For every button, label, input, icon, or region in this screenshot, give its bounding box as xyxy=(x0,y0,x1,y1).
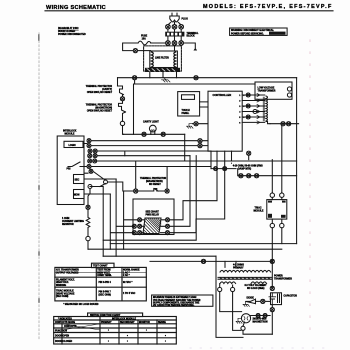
svg-text:FILAMENT VOLT.: FILAMENT VOLT. xyxy=(56,278,75,281)
magnetron cathode terminal xyxy=(241,326,245,330)
connector arrows xyxy=(257,94,260,124)
cavity light lamp xyxy=(149,125,156,134)
label FUSE 15A xyxy=(141,36,148,41)
relay left feed wires xyxy=(110,179,137,256)
relay bottom bus xyxy=(103,156,196,241)
hv loop left vertical xyxy=(216,256,243,337)
svg-text:MON: MON xyxy=(74,195,80,197)
label THERMAL PROTECTOR magnetron-circuit xyxy=(140,177,167,186)
svg-text:TERMINAL: TERMINAL xyxy=(187,32,199,35)
svg-text:WIRING SCHEMATIC: WIRING SCHEMATIC xyxy=(46,5,106,11)
controller pin circle B xyxy=(198,144,202,148)
power transformer T1 primary winding xyxy=(220,270,271,272)
svg-text:PRIMARY: PRIMARY xyxy=(233,267,244,270)
diode output junction xyxy=(261,299,265,303)
junction circle on L1 right xyxy=(194,76,198,80)
label POWER TRANSFORMER xyxy=(274,276,292,281)
svg-text:TRIAC: TRIAC xyxy=(255,207,262,210)
svg-text:MONITOR: MONITOR xyxy=(139,322,150,324)
svg-text:RESISTOR: RESISTOR xyxy=(62,224,74,226)
svg-text:MODULE: MODULE xyxy=(254,211,264,213)
svg-text:CAPACITOR: CAPACITOR xyxy=(284,294,298,297)
scan edge artifacts xyxy=(38,33,40,340)
svg-text:*: * xyxy=(108,342,109,344)
interlock wiring stubs xyxy=(83,144,116,197)
relay right feed wires xyxy=(170,151,225,233)
label INTERLOCK MODULE xyxy=(63,131,77,136)
wire drop from cavity light bus xyxy=(184,134,186,160)
svg-text:NORM. RANGE: NORM. RANGE xyxy=(123,269,140,272)
transformer secondary terminals xyxy=(218,287,222,291)
svg-text:THERMAL PROTECTOR: THERMAL PROTECTOR xyxy=(140,177,167,180)
svg-text:2 AC *: 2 AC * xyxy=(123,274,130,277)
svg-text:POWER BEFORE SERVICING.: POWER BEFORE SERVICING. xyxy=(231,33,264,35)
svg-text:(MAGNETRON): (MAGNETRON) xyxy=(95,107,112,110)
relay terminals right xyxy=(166,218,170,235)
svg-text:POWER DISCONNECTED: POWER DISCONNECTED xyxy=(58,34,86,36)
svg-text:*: * xyxy=(146,331,147,333)
svg-text:NO RESET: NO RESET xyxy=(149,184,161,186)
terminal circle below protectors xyxy=(120,121,124,125)
svg-text:*: * xyxy=(127,336,128,338)
label SEC xyxy=(75,180,80,182)
svg-text:OPEN 260F, NO RESET: OPEN 260F, NO RESET xyxy=(87,92,113,94)
junction terminal at filter input xyxy=(133,49,137,53)
door sense switch diagonal xyxy=(84,173,106,186)
vertical feeders controller area xyxy=(210,151,212,169)
svg-text:SEE CHART: SEE CHART xyxy=(146,211,160,214)
junction circle left of lamp xyxy=(142,132,146,136)
svg-text:CONTACTS MADE: CONTACTS MADE xyxy=(55,321,75,324)
svg-text:INTERLOCK MODULE: INTERLOCK MODULE xyxy=(112,318,136,320)
chassis ground below filter xyxy=(162,77,171,82)
bottom feeder wire with junction xyxy=(150,260,272,262)
junction circle between protectors xyxy=(120,97,124,101)
cavity light bus wire xyxy=(124,133,185,135)
svg-text:FUNCTION: FUNCTION xyxy=(55,331,67,333)
svg-text:*: * xyxy=(127,342,128,344)
svg-text:PANEL: PANEL xyxy=(182,112,190,115)
svg-text:PRIMARY: PRIMARY xyxy=(101,321,112,324)
triac module box xyxy=(267,200,287,220)
svg-text:(CAVITY): (CAVITY) xyxy=(102,88,112,91)
stirrer wire with 3 junction circles xyxy=(238,169,297,176)
wire branch to controller top xyxy=(134,80,256,135)
svg-text:DAMP MTR): DAMP MTR) xyxy=(238,168,251,171)
svg-text:DIODE: DIODE xyxy=(247,298,255,300)
interlock terminal circles column xyxy=(87,139,108,189)
junction circle on feeder xyxy=(201,259,205,263)
svg-text:OUTPUT VOLTAGES: OUTPUT VOLTAGES xyxy=(56,271,79,274)
triac top terminals xyxy=(270,193,274,197)
capacitor bottom junction xyxy=(270,308,274,312)
svg-text:92 VAC *: 92 VAC * xyxy=(123,281,133,284)
wire ground pin to controller xyxy=(193,123,209,125)
label 1 OHM CURRENT LIMITING RESISTOR xyxy=(62,218,84,226)
label MON xyxy=(74,195,80,197)
wire N-side terminal to ground arrow xyxy=(184,43,196,48)
label CONTROLLER xyxy=(213,93,232,97)
wire left drop to thermal protectors xyxy=(117,78,119,86)
svg-text:TEST FROM: TEST FROM xyxy=(97,270,110,272)
filament junctions xyxy=(256,314,267,318)
damp motor wire with junctions xyxy=(211,168,236,170)
svg-text:SECONDARY: SECONDARY xyxy=(120,321,135,324)
ground pin circle xyxy=(194,122,198,126)
triac top stubs xyxy=(272,193,282,200)
label TEST CHART xyxy=(93,265,108,268)
logic board box xyxy=(64,141,83,147)
resistor R1 1 OHM current limiting xyxy=(86,209,90,236)
svg-text:OPEN 300F, NO RESET: OPEN 300F, NO RESET xyxy=(87,111,113,113)
magnetron filament wires xyxy=(251,315,271,317)
svg-text:FUSE: FUSE xyxy=(141,36,148,38)
svg-text:15A: 15A xyxy=(142,37,147,40)
wire into line filter xyxy=(138,50,151,52)
svg-text:NO LOAD (SEE): NO LOAD (SEE) xyxy=(247,287,265,290)
mid bus wire 4 xyxy=(90,187,103,257)
svg-text:MAGNETRON: MAGNETRON xyxy=(253,320,268,323)
svg-text:HIGH VOLT.: HIGH VOLT. xyxy=(56,282,69,284)
svg-text:LOW VOLTAGE: LOW VOLTAGE xyxy=(258,87,275,90)
svg-text:TRANSFORMER: TRANSFORMER xyxy=(274,278,292,281)
svg-text:SENSE: SENSE xyxy=(158,322,166,324)
svg-text:SWITCH FUNCTION CHART: SWITCH FUNCTION CHART xyxy=(90,314,121,317)
footnote measured no load xyxy=(63,303,98,306)
triac feed wires xyxy=(272,126,282,193)
relay coil (hatched) xyxy=(143,218,161,234)
label DIODE xyxy=(247,298,255,300)
label TOUCH PANEL xyxy=(182,110,190,115)
label CAVITY LIGHT xyxy=(143,121,159,124)
svg-text:MODULE: MODULE xyxy=(65,134,75,136)
svg-text:MAXIMUM THERE IS EXTREMELY: MAXIMUM THERE IS EXTREMELY HIGH xyxy=(153,296,197,299)
fuse F1 xyxy=(138,41,151,45)
note box caution xyxy=(152,295,213,306)
junction circles on lvt-rail wire xyxy=(281,122,285,126)
terminal row upper (3 crimp terminals) xyxy=(166,25,184,32)
thermal protector TP3 switch row xyxy=(108,182,134,191)
thermal protector TP2 (magnetron) xyxy=(119,101,126,121)
terminal block TB1 xyxy=(165,32,184,37)
svg-text:*: * xyxy=(165,336,166,338)
touch panel box xyxy=(178,92,200,116)
capacitor top junction xyxy=(270,286,274,290)
svg-text:CURRENT LIMITING: CURRENT LIMITING xyxy=(62,221,84,223)
chart diagonal xyxy=(62,324,100,330)
svg-text:DRIVE VOLTAGE: DRIVE VOLTAGE xyxy=(56,292,75,295)
wire pin A to controller xyxy=(202,141,208,146)
svg-text:* MEASURED NO LOAD ROUND: * MEASURED NO LOAD ROUND xyxy=(63,303,98,306)
controller bottom drop wires xyxy=(225,151,232,168)
controller bottom-right pin circle xyxy=(247,151,251,155)
relay contact linkages xyxy=(142,220,166,233)
label thermal protector magnetron xyxy=(86,104,113,113)
pin junction circles xyxy=(246,93,257,119)
label PLUG xyxy=(182,19,189,21)
title MODELS xyxy=(203,4,333,10)
warning box xyxy=(230,28,288,35)
chassis ground at controller left xyxy=(187,124,194,129)
svg-text:LOGIC: LOGIC xyxy=(69,145,77,147)
wire bus L1 below filter xyxy=(118,77,297,79)
magnetron V1 xyxy=(241,314,250,323)
label LINE FILTER xyxy=(155,58,169,60)
svg-text:THERMAL PROTECTOR: THERMAL PROTECTOR xyxy=(86,85,113,88)
svg-text:* INDICATES: * INDICATES xyxy=(58,317,72,320)
svg-text:TRANSFORMER: TRANSFORMER xyxy=(258,90,276,93)
magnetron ground xyxy=(236,318,242,323)
filter output stubs xyxy=(150,72,177,78)
svg-text:(MAGNETRON): (MAGNETRON) xyxy=(146,180,163,183)
bus wire y160 junction xyxy=(231,162,233,164)
svg-text:PIN 3-PIN 4: PIN 3-PIN 4 xyxy=(99,281,112,284)
test chart cell text xyxy=(56,269,140,299)
wire bus from interlock to controller pin B xyxy=(91,145,198,147)
LVT terminal circles xyxy=(287,87,291,91)
svg-text:4-2 OHMS: 4-2 OHMS xyxy=(233,264,244,267)
label 4-2 OHMS PRIMARY xyxy=(233,264,244,270)
wire 1-ohm branch xyxy=(88,189,90,206)
right rail wire xyxy=(296,78,298,244)
svg-text:DOOR CLOSED: DOOR CLOSED xyxy=(58,31,75,33)
power relay box xyxy=(133,199,174,235)
svg-text:4-10 OHM, 50-60 OHM (FMS: 4-10 OHM, 50-60 OHM (FMS xyxy=(233,165,263,168)
wire lvt winding join xyxy=(268,122,271,124)
capacitor C1 xyxy=(269,293,282,305)
wire bus from interlock to controller pin A xyxy=(91,140,198,142)
bottom bus wire B xyxy=(88,249,282,267)
wire LVT secondary to right rail xyxy=(266,122,299,124)
mid bus wire 1 xyxy=(97,151,211,156)
label 3.3 VOLT FILAMENT xyxy=(245,284,268,290)
svg-text:HIGH VOLT.: HIGH VOLT. xyxy=(97,272,110,274)
note diagram-conditions xyxy=(58,27,86,36)
title WIRING SCHEMATIC xyxy=(46,5,106,11)
wire from protector chain down to cavity-light bus xyxy=(123,126,124,135)
bottom bus wire A xyxy=(110,243,296,245)
svg-text:2M167B-M16: 2M167B-M16 xyxy=(253,318,268,320)
svg-text:PWR RELAY: PWR RELAY xyxy=(146,214,160,217)
svg-text:INTERLOCK: INTERLOCK xyxy=(63,131,77,133)
svg-text:POWER: POWER xyxy=(274,276,283,278)
svg-text:XFMR TERM.: XFMR TERM. xyxy=(97,275,112,277)
svg-text:TRIAC MODULE: TRIAC MODULE xyxy=(56,290,74,293)
header underline xyxy=(45,10,333,12)
mid bus wire 2 xyxy=(97,156,297,161)
test chart table xyxy=(55,263,146,301)
svg-text:(SEC OHM): (SEC OHM) xyxy=(56,296,68,298)
terminal circle below resistor xyxy=(86,236,90,240)
monitor switch box xyxy=(74,190,85,199)
svg-text:CONTACTS: CONTACTS xyxy=(64,325,77,328)
label SWITCH FUNCTION CHART xyxy=(90,314,121,317)
svg-text:*: * xyxy=(108,331,109,333)
line filter core bar (hatched) xyxy=(145,68,180,72)
svg-text:THERMAL PROTECTOR: THERMAL PROTECTOR xyxy=(86,104,113,107)
primary interlock switch xyxy=(68,162,84,167)
svg-text:HV CAPACITOR BEFORE SERVICI: HV CAPACITOR BEFORE SERVICING. xyxy=(153,304,195,307)
line filter inner box xyxy=(150,51,178,68)
line filter dashed enclosure xyxy=(144,46,182,71)
wires TP3 to verticals xyxy=(136,161,167,189)
low voltage transformer box xyxy=(255,82,292,99)
svg-text:CONTROLLER: CONTROLLER xyxy=(213,93,232,97)
secondary interlock switch box xyxy=(74,175,85,184)
svg-text:CAVITY LIGHT: CAVITY LIGHT xyxy=(143,121,159,124)
svg-text:1 TO 5 VAC: 1 TO 5 VAC xyxy=(123,292,136,295)
label TRIAC MODULE xyxy=(254,207,264,213)
svg-text:1 OHM: 1 OHM xyxy=(62,218,69,220)
diode D1 xyxy=(246,299,261,304)
power transformer secondary winding xyxy=(220,282,267,284)
interlock module box xyxy=(57,136,84,205)
wire terminal-block center into filter xyxy=(174,45,176,51)
svg-text:SEC: SEC xyxy=(75,180,80,182)
switch chart cell text xyxy=(55,317,166,343)
svg-text:WARNING: DISCONNECT ELECTRIC: WARNING: DISCONNECT ELECTRICAL xyxy=(231,29,274,32)
mid bus wire 3 xyxy=(91,166,211,168)
touch panel display window xyxy=(182,95,195,100)
label TERMINAL BLOCK xyxy=(187,32,199,38)
line filter coil right xyxy=(174,52,176,67)
wire L-side from fuse to filter input xyxy=(123,43,166,51)
line filter coil left xyxy=(152,52,154,67)
svg-text:WINDING: WINDING xyxy=(56,285,66,287)
relay terminals left xyxy=(132,218,141,235)
svg-text:3.3 VOLT FILAMENT: 3.3 VOLT FILAMENT xyxy=(245,284,268,287)
svg-text:BLOCK: BLOCK xyxy=(187,36,196,38)
junction circle right of lamp xyxy=(161,132,165,136)
svg-text:1 AC *: 1 AC * xyxy=(123,271,130,274)
diode ground xyxy=(243,301,249,306)
controller pin circle A xyxy=(198,139,202,143)
terminal row lower (3 crimp terminals) xyxy=(166,37,184,46)
junction circle above resistor xyxy=(86,205,90,209)
touch panel to controller ribbon wires xyxy=(200,102,208,107)
switch function chart table xyxy=(54,313,177,344)
label CAPACITOR xyxy=(284,294,298,297)
svg-text:DOOR CLOSED: DOOR CLOSED xyxy=(55,341,72,343)
svg-text:MODELS: EFS-7EVP.E, EFS-7EVP.: MODELS: EFS-7EVP.E, EFS-7EVP.F xyxy=(203,4,333,10)
wire resistor to bottom bus xyxy=(87,241,89,249)
triac bottom terminals xyxy=(270,223,274,227)
label LOGIC xyxy=(69,145,77,147)
svg-text:DOOR OPEN: DOOR OPEN xyxy=(55,336,69,338)
label MAGNETRON xyxy=(253,318,268,323)
label LOW VOLTAGE TRANSFORMER xyxy=(258,87,276,93)
label damp motor resistance xyxy=(233,165,263,171)
LVT winding xyxy=(266,96,268,121)
junction circle on L1 left xyxy=(133,76,137,80)
power transformer core xyxy=(218,277,272,279)
svg-text:TEST CHART: TEST CHART xyxy=(93,265,108,268)
label thermal protector cavity xyxy=(86,85,113,94)
svg-text:PRI: PRI xyxy=(67,169,71,171)
thermal protector TP1 (cavity) xyxy=(118,86,124,97)
HV winding lead xyxy=(220,292,242,331)
svg-text:TOUCH: TOUCH xyxy=(182,110,190,112)
triac bottom wires xyxy=(272,219,282,287)
svg-text:(SEC OHM): (SEC OHM) xyxy=(99,294,111,296)
controller box U1 xyxy=(208,91,242,151)
label PRI xyxy=(67,169,71,171)
plug P1 xyxy=(168,13,180,24)
label SEE CHART PWR RELAY xyxy=(146,211,160,217)
svg-text:DIAGRAM AT 240C: DIAGRAM AT 240C xyxy=(58,27,79,30)
svg-text:H.V. TRANSFORMER: H.V. TRANSFORMER xyxy=(56,269,79,272)
ground arrow (frame) xyxy=(194,48,198,51)
triac pin ticks xyxy=(268,201,286,218)
controller right pin wires to transformer xyxy=(242,95,265,122)
svg-text:*: * xyxy=(165,342,166,344)
svg-text:LINE FILTER: LINE FILTER xyxy=(155,58,169,60)
svg-text:PIN 5-PIN 7: PIN 5-PIN 7 xyxy=(99,292,112,294)
svg-text:PLUG: PLUG xyxy=(182,19,189,21)
